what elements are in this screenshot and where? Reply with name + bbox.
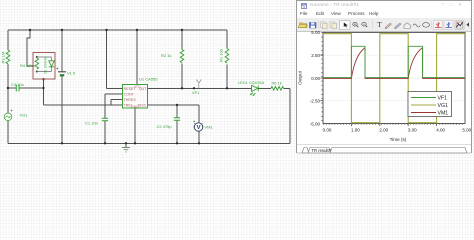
- svg-text:D1 1N4148: D1 1N4148: [43, 57, 47, 74]
- svg-text:4.00: 4.00: [436, 127, 445, 132]
- svg-text:VF1: VF1: [192, 90, 200, 95]
- svg-text:Time (s): Time (s): [390, 137, 407, 142]
- svg-text:R2 1k: R2 1k: [161, 53, 171, 58]
- svg-text:VG1: VG1: [20, 112, 29, 117]
- svg-text:0.00: 0.00: [323, 127, 332, 132]
- svg-text:-2.50: -2.50: [310, 99, 321, 104]
- svg-text:THRES: THRES: [124, 98, 137, 102]
- svg-text:R5 1k: R5 1k: [272, 81, 282, 86]
- svg-text:2.00: 2.00: [379, 127, 388, 132]
- svg-text:R3 1M: R3 1M: [1, 52, 6, 64]
- svg-text:VF1: VF1: [438, 96, 448, 102]
- svg-text:DISC: DISC: [138, 104, 147, 108]
- svg-text:C3 10n: C3 10n: [11, 82, 24, 87]
- svg-text:V1 5: V1 5: [67, 71, 76, 76]
- svg-text:5.00: 5.00: [462, 127, 471, 132]
- svg-text:V: V: [197, 125, 201, 131]
- svg-text:2.50: 2.50: [311, 53, 320, 58]
- svg-text:U1 CA555: U1 CA555: [139, 77, 158, 82]
- svg-text:1.00: 1.00: [351, 127, 360, 132]
- svg-text:0.00: 0.00: [311, 76, 320, 81]
- svg-text:LED1 CQX35A: LED1 CQX35A: [238, 80, 265, 85]
- svg-text:T: T: [377, 21, 382, 29]
- svg-text:VG1: VG1: [438, 103, 448, 109]
- svg-text:Output: Output: [297, 70, 302, 85]
- svg-text:C2 475p: C2 475p: [157, 124, 173, 129]
- svg-text:R1 100: R1 100: [219, 48, 224, 62]
- svg-text:C1 10n: C1 10n: [85, 120, 98, 125]
- svg-text:VM1: VM1: [205, 124, 214, 129]
- svg-text:CONT: CONT: [124, 93, 135, 97]
- svg-text:3.00: 3.00: [408, 127, 417, 132]
- svg-text:VM1: VM1: [438, 111, 449, 117]
- svg-text:-5.00: -5.00: [310, 121, 321, 126]
- svg-text:R4 10k: R4 10k: [20, 63, 33, 68]
- svg-text:VCC: VCC: [134, 85, 141, 89]
- svg-text:5.00: 5.00: [311, 31, 320, 35]
